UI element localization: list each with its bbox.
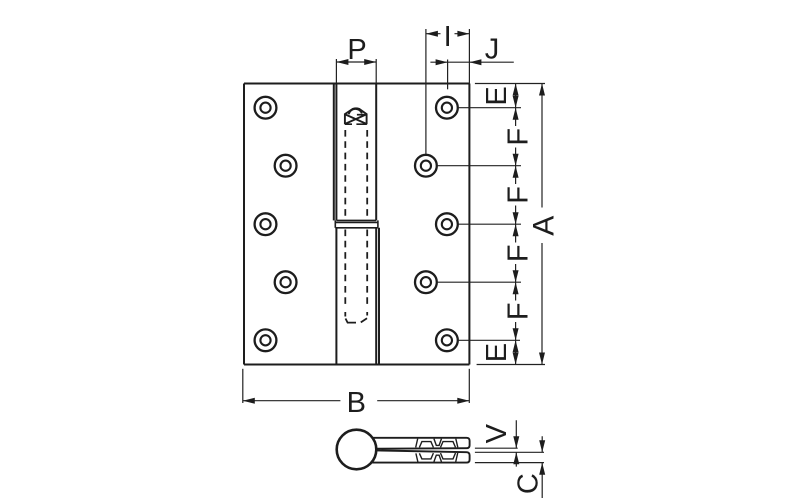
pin head dome bbox=[345, 108, 367, 124]
screw hole L2 bbox=[275, 155, 297, 177]
dimension E top line bbox=[515, 84, 517, 108]
svg-text:F: F bbox=[503, 128, 535, 146]
dimension C arrows bbox=[539, 440, 545, 475]
screw hole L3 bbox=[255, 213, 277, 235]
right leaf inner edge lower bbox=[378, 228, 380, 365]
dimension E bottom line bbox=[515, 340, 517, 364]
dimension P line bbox=[336, 61, 376, 63]
pin bottom chevron dashed bbox=[345, 312, 367, 323]
hidden pin dashed left line bbox=[344, 130, 346, 307]
leader line leaf gap bottom bbox=[475, 451, 544, 453]
screw hole R5 bbox=[436, 329, 458, 351]
knuckle collar joint bbox=[335, 220, 378, 227]
dimension B extension lines bbox=[243, 369, 469, 403]
leader line hole R2 bbox=[438, 165, 521, 167]
svg-text:B: B bbox=[347, 387, 366, 419]
screw hole R3 bbox=[436, 213, 458, 235]
svg-text:C: C bbox=[513, 473, 545, 494]
dimension J arrows bbox=[436, 59, 482, 65]
svg-text:P: P bbox=[347, 34, 366, 66]
dimension E bottom arrows bbox=[513, 340, 519, 364]
hinge leaf outline bottom edge bbox=[244, 364, 469, 366]
hidden pin dashed right line bbox=[366, 130, 368, 307]
leader line hole R4 bbox=[438, 281, 521, 283]
leader line bottom edge bbox=[477, 364, 545, 366]
dimension I arrows bbox=[426, 31, 470, 37]
screw hole R1 bbox=[436, 97, 458, 119]
dimension F3 lines bbox=[515, 224, 517, 282]
screw hole R4 bbox=[415, 271, 437, 293]
screw hole R2 bbox=[415, 155, 437, 177]
dimension F4 arrows bbox=[513, 282, 519, 340]
dimension F2 lines bbox=[515, 166, 517, 225]
dimension V line bbox=[515, 420, 517, 466]
lower leaf crimp pattern bbox=[416, 453, 458, 462]
leader line leaf gap top bbox=[475, 447, 518, 449]
side view lower leaf bbox=[372, 450, 470, 462]
dimension F1 lines bbox=[515, 108, 517, 166]
dimension B arrows bbox=[243, 398, 469, 404]
dimension P extension lines bbox=[336, 59, 376, 83]
leader line hole R5 bbox=[459, 339, 520, 341]
screw hole L4 bbox=[275, 271, 297, 293]
dimension F4 lines bbox=[515, 282, 517, 340]
leader line hole R1 bbox=[459, 107, 521, 109]
upper knuckle right edge bbox=[375, 84, 377, 221]
upper knuckle left edge bbox=[335, 84, 337, 221]
hinge right leaf right edge bbox=[468, 84, 470, 365]
screw hole L1 bbox=[255, 97, 277, 119]
side view upper leaf bbox=[372, 438, 470, 449]
dimension J extension line bbox=[447, 60, 449, 90]
svg-text:F: F bbox=[503, 244, 535, 262]
upper leaf crimp pattern bbox=[416, 439, 458, 448]
leader line lower leaf bottom bbox=[475, 462, 544, 464]
svg-text:V: V bbox=[481, 423, 513, 443]
lower knuckle left edge bbox=[335, 228, 337, 365]
dimension C line bbox=[541, 436, 543, 498]
dimension V arrows bbox=[513, 436, 519, 464]
dimension P arrows bbox=[336, 59, 376, 65]
dimension I extension lines bbox=[426, 29, 470, 154]
hinge leaf outline top edge bbox=[244, 83, 469, 85]
leader line top edge bbox=[475, 83, 545, 85]
dimension I line bbox=[426, 33, 470, 35]
dimension E top arrows bbox=[513, 84, 519, 108]
svg-text:F: F bbox=[503, 302, 535, 320]
dimension F2 arrows bbox=[513, 166, 519, 225]
svg-text:I: I bbox=[444, 21, 452, 53]
svg-text:F: F bbox=[503, 186, 535, 204]
dimension A arrows bbox=[539, 84, 545, 365]
hinge left leaf left edge bbox=[243, 84, 245, 365]
dimension A line bbox=[541, 84, 543, 365]
svg-text:E: E bbox=[481, 86, 513, 105]
lower knuckle right edge bbox=[375, 228, 377, 365]
dimension F3 arrows bbox=[513, 224, 519, 282]
dimension B line bbox=[243, 400, 469, 402]
screw hole L5 bbox=[255, 329, 277, 351]
left leaf inner edge upper bbox=[333, 84, 335, 221]
svg-text:E: E bbox=[481, 343, 513, 362]
dimension F1 arrows bbox=[513, 108, 519, 166]
side view knuckle barrel bbox=[337, 430, 377, 470]
dimension J line bbox=[430, 61, 513, 63]
leader line hole R3 bbox=[459, 223, 521, 225]
svg-text:A: A bbox=[528, 216, 561, 236]
svg-text:J: J bbox=[485, 34, 500, 66]
